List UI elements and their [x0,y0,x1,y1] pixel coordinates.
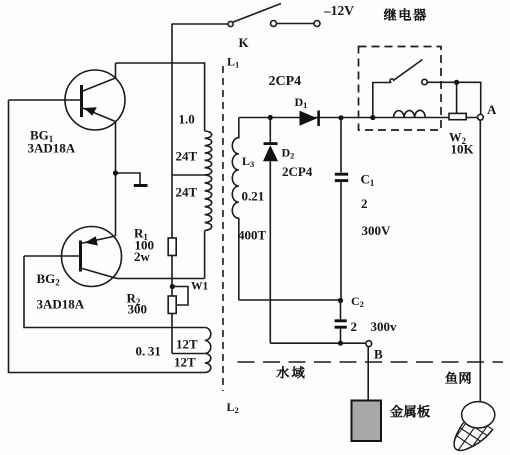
label water area (CJK) [277,366,305,378]
svg-text:12T: 12T [174,355,196,370]
svg-text:300: 300 [128,302,148,317]
diode D1 [300,111,319,127]
fish net bag [448,414,501,454]
svg-text:1.0: 1.0 [179,112,195,127]
svg-text:2CP4: 2CP4 [269,74,302,89]
metal plate electrode [352,401,382,442]
node coil-contact junction [370,115,375,120]
inductor L3 400T [232,118,238,301]
svg-text:10K: 10K [451,142,475,157]
node bias junction [170,284,175,289]
relay fixed contact [422,79,427,84]
transistor BG2 [24,227,122,287]
potentiometer W1 wiper [172,287,188,306]
node W2 wiper junction [454,80,459,85]
svg-text:W1: W1 [191,281,209,293]
wire feedback center tap [172,353,205,355]
svg-text:A: A [487,102,497,117]
transformer core dashed line [222,66,224,391]
wire L1 bottom to collector rail [204,231,206,279]
svg-text:24T: 24T [176,185,198,200]
wire secondary top rail [239,117,478,119]
svg-text:0. 31: 0. 31 [136,344,161,359]
battery terminal circles [271,21,321,27]
wire A down to fish net [479,120,481,401]
water surface dashed line [238,361,504,363]
wire collector top rail [116,63,205,131]
fish net hoop [462,402,495,428]
svg-text:2: 2 [351,319,358,334]
wire B to metal plate [367,347,369,400]
diode D2 [263,118,278,344]
node B terminal [366,341,372,347]
svg-text:300v: 300v [371,319,398,334]
svg-text:–12V: –12V [323,3,354,18]
wire emitter rail [115,122,117,237]
node C1 top junction [338,115,343,120]
potentiometer W2 wiper wire [456,82,458,113]
wire -12V feed vertical to bias chain [171,24,173,296]
wire bottom rail to B [270,342,366,344]
svg-text:B: B [374,347,383,362]
wire BG1 base left rail [9,100,205,373]
wire contact to A corner [427,82,481,114]
wire L1 center tap [172,174,205,176]
capacitor C1 [335,119,348,300]
svg-text:24T: 24T [176,149,198,164]
wire bias chain lower [171,313,173,354]
switch K [228,4,281,27]
svg-text:K: K [239,35,250,50]
resistor R1 [168,238,176,256]
relay coil [394,110,426,117]
capacitor C2 [335,301,347,344]
node midpoint junction [338,298,343,303]
svg-text:2: 2 [361,196,368,211]
transistor BG1 [9,63,126,130]
inductor L1 primary winding 24T+24T [205,131,212,230]
svg-text:3AD18A: 3AD18A [37,297,85,312]
svg-text:12T: 12T [176,337,198,352]
svg-text:3AD18A: 3AD18A [28,141,76,156]
svg-text:400T: 400T [238,228,267,243]
inductor L1 feedback winding 12T+12T [205,328,211,373]
wire -12V feed top horizontal [172,23,229,25]
wire BG2 collector to winding bottom [117,278,205,280]
relay moving contact lever [390,60,423,83]
svg-text:2CP4: 2CP4 [282,164,313,179]
label fish net (CJK) [445,372,470,384]
resistor R2 [168,296,176,314]
node C2 bottom junction [338,341,343,346]
svg-text:2w: 2w [134,249,151,264]
resistor W2 [449,113,466,119]
label relay (CJK) [384,8,426,20]
wire BG2 base left rail [24,256,205,328]
ground [116,173,148,186]
svg-text:300V: 300V [362,223,392,238]
relay contact branch [373,83,392,118]
label metal plate (CJK) [390,405,430,418]
node emitter junction [113,170,118,175]
relay dashed box [359,47,442,131]
node D2 branch [268,115,273,120]
svg-text:0.21: 0.21 [242,189,265,204]
wire midpoint rail [239,299,341,301]
node A terminal [478,114,484,120]
